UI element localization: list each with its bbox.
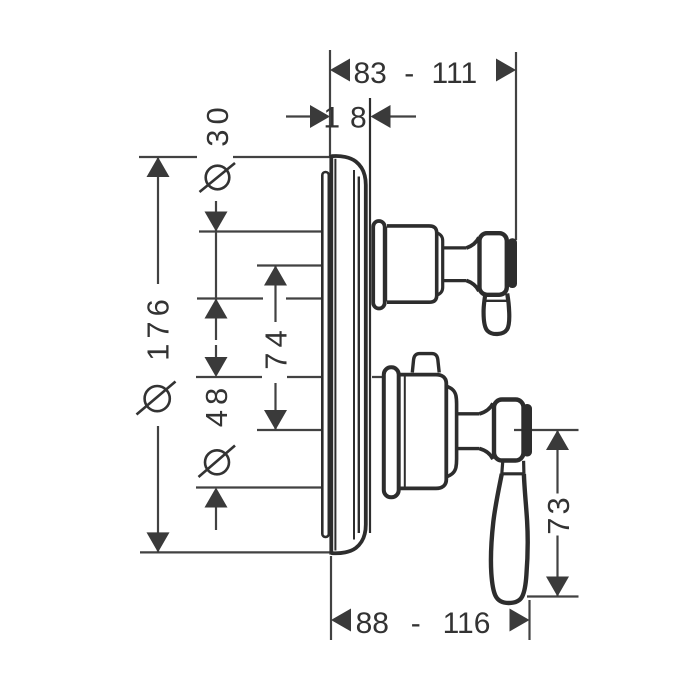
svg-text:176: 176 [140, 294, 175, 361]
svg-text:74: 74 [259, 325, 294, 369]
svg-text:88 - 116: 88 - 116 [356, 607, 491, 640]
svg-text:48: 48 [199, 383, 234, 427]
svg-text:30: 30 [200, 102, 235, 146]
svg-text:73: 73 [541, 494, 576, 534]
svg-text:83 - 111: 83 - 111 [354, 57, 478, 90]
svg-text:18: 18 [323, 102, 376, 135]
